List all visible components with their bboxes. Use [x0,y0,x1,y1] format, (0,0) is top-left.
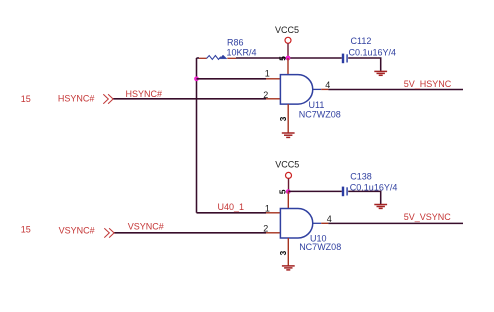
svg-text:2: 2 [263,223,268,233]
svg-text:2: 2 [263,90,268,100]
svg-text:U40_1: U40_1 [218,202,245,212]
svg-text:U11: U11 [309,100,325,110]
svg-text:HSYNC#: HSYNC# [126,89,163,99]
svg-text:VSYNC#: VSYNC# [128,221,164,231]
svg-text:15: 15 [21,94,31,104]
svg-text:10KR/4: 10KR/4 [227,47,257,57]
svg-text:5: 5 [278,189,288,194]
svg-text:5V_VSYNC: 5V_VSYNC [404,212,452,222]
svg-text:C138: C138 [350,171,372,181]
svg-text:3: 3 [278,116,288,121]
svg-text:HSYNC#: HSYNC# [58,94,95,104]
svg-text:1: 1 [265,69,270,79]
svg-text:5: 5 [278,56,288,61]
svg-text:R86: R86 [227,37,244,47]
svg-text:VSYNC#: VSYNC# [59,225,95,235]
svg-text:15: 15 [21,225,31,235]
svg-text:C0.1u16Y/4: C0.1u16Y/4 [350,182,398,192]
svg-text:VCC5: VCC5 [275,25,299,35]
svg-text:NC7WZ08: NC7WZ08 [299,110,341,120]
svg-text:3: 3 [278,250,288,255]
svg-text:VCC5: VCC5 [275,160,299,170]
svg-text:C0.1u16Y/4: C0.1u16Y/4 [349,47,397,57]
svg-text:5V_HSYNC: 5V_HSYNC [404,79,452,89]
svg-text:1: 1 [265,203,270,213]
svg-text:4: 4 [327,214,332,224]
svg-text:4: 4 [325,80,330,90]
svg-text:NC7WZ08: NC7WZ08 [299,242,341,252]
svg-text:C112: C112 [351,36,372,46]
